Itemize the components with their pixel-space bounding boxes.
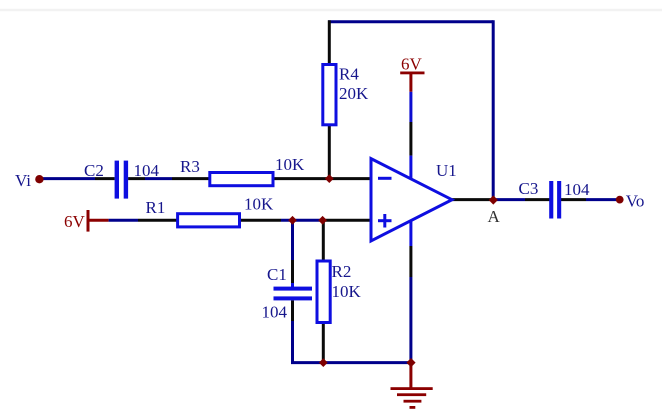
junction R4/R3 — [325, 174, 334, 183]
wire op-amp output to node A — [451, 198, 493, 201]
wire 6V to R1 — [88, 219, 178, 222]
label C2 — [84, 161, 104, 180]
svg-text:C1: C1 — [267, 265, 287, 284]
wire C1 top lead — [291, 220, 294, 287]
svg-text:C3: C3 — [519, 179, 539, 198]
capacitor C3 — [549, 181, 561, 219]
wire C2 to R3 — [128, 177, 210, 180]
wire R2 bottom lead — [322, 323, 325, 362]
wire op-amp negative supply pin to ground — [409, 218, 412, 363]
svg-text:A: A — [488, 207, 501, 226]
wire feedback right vertical to node A — [492, 20, 495, 199]
svg-text:6V: 6V — [401, 54, 423, 73]
wire node A to C3 — [493, 198, 549, 201]
wire top feedback horizontal — [328, 20, 493, 23]
power 6V left — [64, 210, 90, 232]
svg-text:20K: 20K — [339, 84, 369, 103]
wire junction to op-amp inverting input — [329, 177, 371, 180]
node A — [488, 195, 501, 226]
junction R2 branch — [318, 216, 327, 225]
capacitor C2 — [115, 161, 128, 199]
svg-text:10K: 10K — [244, 195, 274, 214]
svg-text:R3: R3 — [180, 157, 200, 176]
svg-text:6V: 6V — [64, 212, 86, 231]
wire R4 top lead — [328, 20, 331, 64]
resistor R3 — [210, 173, 273, 186]
wire bottom rail — [291, 361, 411, 364]
wire op-amp positive supply pin — [409, 92, 412, 182]
wire R4 bottom lead — [328, 125, 331, 179]
label R3 — [180, 157, 200, 176]
node Vo — [616, 192, 645, 211]
svg-text:U1: U1 — [436, 161, 457, 180]
ground — [391, 363, 433, 409]
label R3 value 10K — [275, 155, 305, 174]
capacitor C1 — [274, 287, 313, 301]
wire C1 bottom lead — [291, 300, 294, 362]
svg-text:R2: R2 — [332, 262, 352, 281]
svg-text:104: 104 — [564, 180, 590, 199]
wire R2 top lead — [322, 220, 325, 261]
faint scan line — [0, 9, 662, 12]
label R4 — [339, 65, 359, 84]
resistor R4 — [323, 65, 336, 125]
label C1 value 104 — [262, 303, 288, 322]
junction ground — [406, 358, 415, 367]
svg-text:R1: R1 — [146, 198, 166, 217]
svg-text:R4: R4 — [339, 65, 359, 84]
label R1 value 10K — [244, 195, 274, 214]
label C1 — [267, 265, 287, 284]
label U1 — [436, 161, 457, 180]
op-amp U1 — [371, 159, 452, 241]
label R1 — [146, 198, 166, 217]
svg-text:Vo: Vo — [626, 192, 645, 211]
resistor R2 — [317, 261, 330, 323]
wire R3 to junction — [273, 177, 329, 180]
svg-text:104: 104 — [262, 303, 288, 322]
node Vi — [15, 171, 44, 190]
label C3 value 104 — [564, 180, 590, 199]
svg-text:10K: 10K — [275, 155, 305, 174]
power 6V top — [400, 54, 424, 91]
label R4 value 20K — [339, 84, 369, 103]
svg-text:C2: C2 — [84, 161, 104, 180]
wire R1 to junctions — [240, 219, 323, 222]
junction bottom R2 — [319, 358, 328, 367]
label R2 — [332, 262, 352, 281]
label C2 value 104 — [134, 161, 160, 180]
label R2 value 10K — [332, 282, 362, 301]
label C3 — [519, 179, 539, 198]
resistor R1 — [178, 214, 240, 227]
svg-text:104: 104 — [134, 161, 160, 180]
junction C1 branch — [288, 216, 297, 225]
svg-text:Vi: Vi — [15, 171, 31, 190]
wire C3 to Vo — [561, 198, 620, 201]
wire junction to op-amp non-inverting input — [323, 219, 371, 222]
svg-text:10K: 10K — [332, 282, 362, 301]
wire Vi to C2 — [41, 177, 115, 180]
